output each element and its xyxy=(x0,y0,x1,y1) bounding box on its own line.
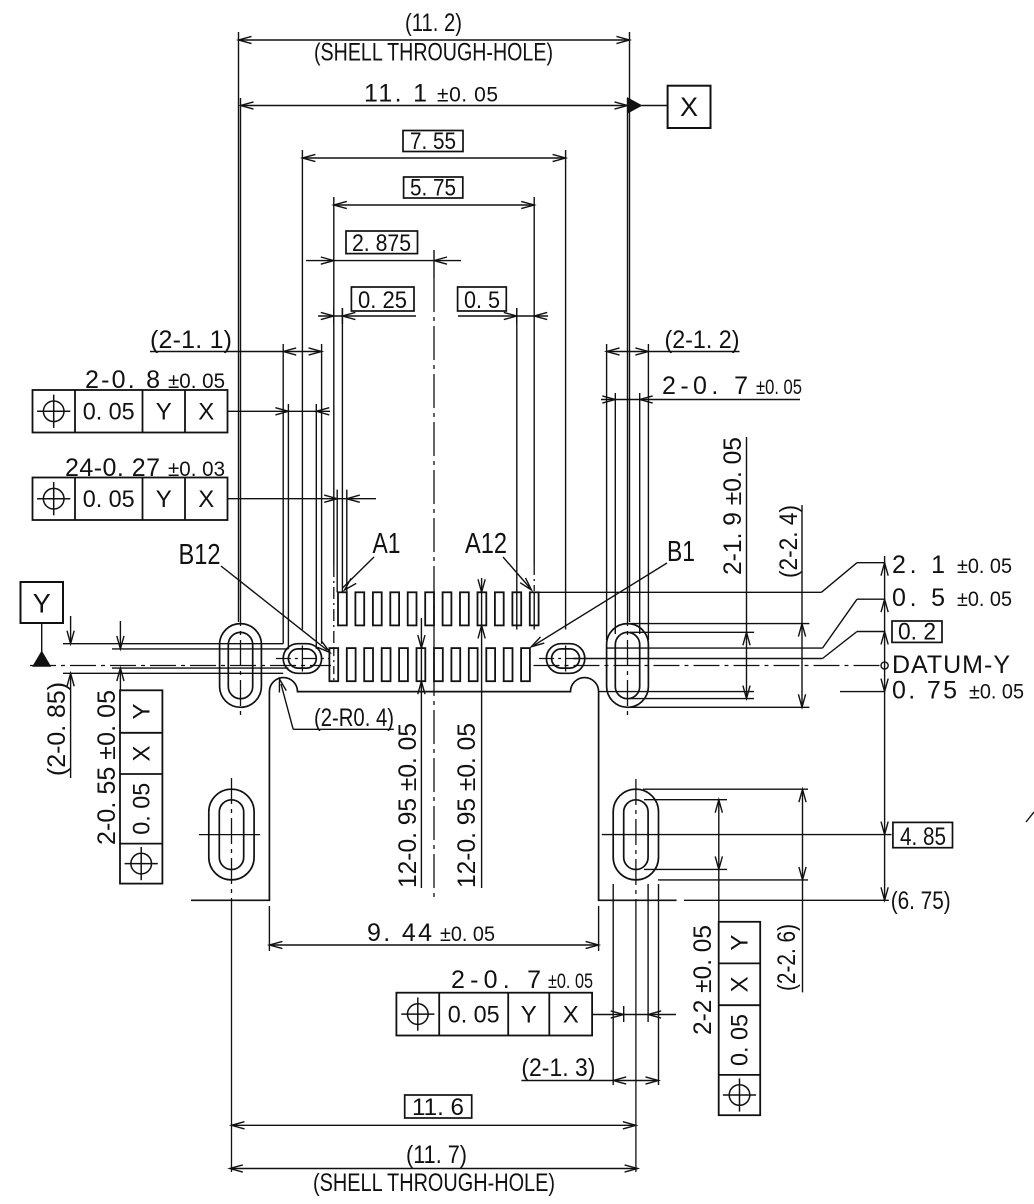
svg-text:X: X xyxy=(563,1001,579,1028)
ext lines small oval outer top/bottom xyxy=(63,643,283,645)
connector body outline with R0.4 notches xyxy=(269,678,598,901)
0.75 feature line (shell line) xyxy=(599,691,755,693)
lower oval right outer (1.3x2.6) xyxy=(613,789,658,880)
svg-text:(2-2. 4): (2-2. 4) xyxy=(775,505,803,578)
extension line A11 center xyxy=(516,308,518,630)
extension line A12 center xyxy=(533,197,535,565)
svg-text:12-0. 95 ±0. 05: 12-0. 95 ±0. 05 xyxy=(453,723,481,888)
ext lines shell oval right hole top/bottom xyxy=(630,631,754,633)
dimension 7.55 xyxy=(302,157,565,159)
svg-text:(2-1. 1): (2-1. 1) xyxy=(150,326,232,354)
leader 2-0.8 to hole edges xyxy=(228,410,331,412)
leader 2-0.7 to lower oval hole edges xyxy=(592,1014,676,1016)
svg-text:Y: Y xyxy=(727,935,754,951)
extension line B12 center xyxy=(333,197,335,565)
dimension 12-0.95 B row xyxy=(420,618,422,888)
svg-text:(2-R0. 4): (2-R0. 4) xyxy=(314,704,394,732)
pad A2 hole xyxy=(355,592,364,625)
pad B2 hole xyxy=(504,648,513,681)
vertical centerline of connector xyxy=(433,250,435,278)
dimension 0.5 A11-A12 pitch xyxy=(458,315,548,317)
svg-text:4. 85: 4. 85 xyxy=(900,823,946,851)
leader B12 xyxy=(221,566,327,650)
svg-text:Y: Y xyxy=(521,1001,537,1028)
svg-text:X: X xyxy=(680,92,698,122)
extension lines small oval centers (7.55) xyxy=(301,150,303,630)
shell TH oval right outer (1.2x2.4) xyxy=(607,624,649,708)
left vertical feature control frame xyxy=(120,690,162,883)
svg-text:(2-0. 85): (2-0. 85) xyxy=(43,682,71,776)
lower oval left center cross xyxy=(199,834,260,836)
shell bottom foot left xyxy=(191,899,270,901)
svg-text:(SHELL THROUGH-HOLE): (SHELL THROUGH-HOLE) xyxy=(314,39,553,67)
DATUM-Y horizontal centerline xyxy=(30,665,331,667)
DATUM-Y marker xyxy=(881,662,888,669)
ext lines lower right oval hole top/bottom xyxy=(644,799,727,801)
lower oval left outer (1.3x2.6) xyxy=(209,789,254,880)
pad B11 hole xyxy=(347,648,356,681)
shell TH oval left outer (1.2x2.4) xyxy=(220,624,262,708)
dimension (11.2) SHELL THROUGH-HOLE top xyxy=(239,39,630,41)
svg-text:DATUM-Y: DATUM-Y xyxy=(892,651,1010,679)
pad B5 hole xyxy=(451,648,460,681)
pad A1 hole xyxy=(338,592,347,625)
extension lines 11.2/11.1 left xyxy=(238,32,240,622)
extension line A1 center xyxy=(341,308,343,592)
feature control frame for 2-0.8 holes xyxy=(33,390,228,433)
pad A8 hole xyxy=(460,592,469,625)
pad B9 hole xyxy=(382,648,391,681)
svg-text:2-0. 7: 2-0. 7 xyxy=(451,966,541,994)
datum X box xyxy=(668,86,711,128)
pad A7 hole xyxy=(443,592,452,625)
svg-text:±0. 05: ±0. 05 xyxy=(957,588,1012,611)
svg-text:11. 1: 11. 1 xyxy=(364,80,427,108)
svg-text:2. 875: 2. 875 xyxy=(352,230,411,257)
pad B1 hole xyxy=(521,648,530,681)
svg-text:±0. 05: ±0. 05 xyxy=(957,555,1012,578)
extension lines 11.2/11.1 right xyxy=(629,32,631,622)
clipped mark right edge xyxy=(1026,812,1034,822)
svg-text:(2-2. 6): (2-2. 6) xyxy=(773,924,801,991)
pad B3 hole xyxy=(486,648,495,681)
svg-text:±0. 05: ±0. 05 xyxy=(969,681,1024,704)
svg-text:A12: A12 xyxy=(465,528,507,560)
dimension 9.44 +-0.05 xyxy=(268,906,270,951)
pad A10 hole xyxy=(495,592,504,625)
svg-text:7. 55: 7. 55 xyxy=(410,128,456,155)
svg-text:12-0. 95 ±0. 05: 12-0. 95 ±0. 05 xyxy=(394,723,422,888)
dimension 2-1.9 +-0.05 xyxy=(746,437,748,699)
pad A12 hole xyxy=(530,592,539,625)
lower oval centerline right xyxy=(635,779,637,907)
dimension 2-2 +-0.05 xyxy=(718,800,720,922)
svg-text:(2-1. 3): (2-1. 3) xyxy=(521,1054,595,1082)
leader 24-0.27 to pad A1 slot width xyxy=(228,498,377,500)
svg-text:2-0. 55 ±0. 05: 2-0. 55 ±0. 05 xyxy=(93,690,121,845)
shell TH oval right hole (0.7x1.9) xyxy=(615,632,639,698)
small oval hole right (0.8x0.55) xyxy=(552,649,580,668)
svg-text:0. 05: 0. 05 xyxy=(448,1001,500,1028)
pad A11 hole xyxy=(512,592,521,625)
leader B1 xyxy=(534,563,667,645)
svg-text:X: X xyxy=(198,399,214,426)
svg-text:0. 05: 0. 05 xyxy=(83,399,135,426)
svg-text:2-0. 7: 2-0. 7 xyxy=(662,372,748,400)
pad B6 hole xyxy=(434,648,443,681)
svg-text:Y: Y xyxy=(33,589,51,619)
lower oval right hole (0.7x2.0) xyxy=(624,800,648,870)
ext lines lower oval outer edges xyxy=(612,884,614,1085)
feature control frame for lower oval holes xyxy=(396,993,592,1036)
datum X filled triangle xyxy=(628,98,642,113)
svg-text:X: X xyxy=(727,976,754,992)
pad B7 hole xyxy=(417,648,426,681)
B12 pad centerline xyxy=(333,648,335,684)
ext lines shell oval right outer top/bottom xyxy=(630,623,809,625)
datum Y filled triangle xyxy=(33,652,50,667)
svg-text:(6. 75): (6. 75) xyxy=(891,887,951,915)
lower oval left hole (0.7x2.0) xyxy=(219,800,243,870)
svg-text:B12: B12 xyxy=(179,539,221,571)
dimension (2-2.6) xyxy=(802,789,804,992)
svg-text:Y: Y xyxy=(156,399,172,426)
ordinate dimension line right xyxy=(884,556,886,900)
pad A4 hole xyxy=(390,592,399,625)
0.2 feature line (small oval center) xyxy=(574,658,823,660)
pad A3 hole xyxy=(373,592,382,625)
right vertical feature control frame xyxy=(719,922,761,1115)
datum Y stem xyxy=(41,623,43,652)
dimension 0.25 B12-A1 offset xyxy=(318,315,416,317)
ext lines small oval hole top/bottom xyxy=(112,648,288,650)
datum Y box xyxy=(21,582,64,623)
pad B4 hole xyxy=(469,648,478,681)
pad A9 hole xyxy=(478,592,487,625)
svg-text:±0. 05: ±0. 05 xyxy=(548,970,593,993)
svg-text:0. 25: 0. 25 xyxy=(358,287,407,314)
leader A12 xyxy=(503,557,530,588)
dimension (2-2.4) xyxy=(801,505,803,707)
pad B10 hole xyxy=(364,648,373,681)
dimension 2-0.55 xyxy=(119,621,121,649)
svg-text:X: X xyxy=(129,745,156,761)
dimension 12-0.95 A row xyxy=(481,578,483,888)
svg-text:B1: B1 xyxy=(667,536,695,568)
ext lines lower oval hole edges xyxy=(623,1006,625,1022)
svg-text:(11. 7): (11. 7) xyxy=(406,1141,467,1169)
svg-text:X: X xyxy=(198,486,214,513)
pad B12 hole xyxy=(329,648,338,681)
svg-text:0. 5: 0. 5 xyxy=(464,287,500,314)
2.1 feature line (A row top) xyxy=(539,591,821,593)
svg-text:(2-1. 2): (2-1. 2) xyxy=(665,326,740,354)
lower oval centerline left xyxy=(231,778,233,907)
svg-text:2-2 ±0. 05: 2-2 ±0. 05 xyxy=(689,925,717,1035)
svg-text:11. 6: 11. 6 xyxy=(412,1094,464,1121)
svg-text:0. 2: 0. 2 xyxy=(898,619,936,646)
svg-text:±0. 05: ±0. 05 xyxy=(440,923,495,946)
svg-text:Y: Y xyxy=(129,703,156,719)
dimension (2-0.85) xyxy=(70,616,72,644)
pad A5 hole xyxy=(408,592,417,625)
svg-text:±0. 05: ±0. 05 xyxy=(756,376,802,399)
svg-text:5. 75: 5. 75 xyxy=(410,175,456,202)
svg-text:Y: Y xyxy=(156,486,172,513)
ext lines lower right oval outer top/bottom xyxy=(643,788,808,790)
0.5 feature line (B row top) xyxy=(607,647,823,649)
small oval vertical center ticks xyxy=(301,646,303,672)
svg-text:(11. 2): (11. 2) xyxy=(405,9,462,37)
small oval left center cross xyxy=(276,658,329,660)
6.75 ext line (body bottom) xyxy=(684,899,889,901)
pad A6 hole xyxy=(425,592,434,625)
svg-text:±0. 05: ±0. 05 xyxy=(437,84,498,107)
shell TH oval left hole (0.7x1.9) xyxy=(228,632,252,698)
dimension 11.6 xyxy=(405,1095,472,1118)
small oval pad left (1.1x0.85) xyxy=(283,644,321,674)
svg-text:A1: A1 xyxy=(373,528,401,560)
small oval hole left (0.8x0.55) xyxy=(288,649,316,668)
svg-text:0. 05: 0. 05 xyxy=(727,1014,754,1066)
feature control frame for 24-0.27 holes xyxy=(33,478,228,521)
extension lines A1 slot edges xyxy=(336,490,338,593)
4.85 feature line (lower oval centers) xyxy=(602,834,892,836)
shell bottom foot right xyxy=(598,899,677,901)
dimension 2.875 (arrows outside) xyxy=(306,260,461,262)
svg-text:2-1. 9 ±0. 05: 2-1. 9 ±0. 05 xyxy=(719,437,747,575)
leader A1 xyxy=(343,557,375,588)
svg-text:0. 05: 0. 05 xyxy=(83,486,135,513)
small oval right center cross xyxy=(539,658,592,660)
small oval pad right (1.1x0.85) xyxy=(546,644,584,674)
pad B8 hole xyxy=(399,648,408,681)
svg-text:(SHELL THROUGH-HOLE): (SHELL THROUGH-HOLE) xyxy=(313,1169,555,1197)
dimension 5.75 xyxy=(334,204,534,206)
dimension 11.1 +-0.05 xyxy=(241,105,628,107)
svg-text:0. 05: 0. 05 xyxy=(129,783,156,835)
